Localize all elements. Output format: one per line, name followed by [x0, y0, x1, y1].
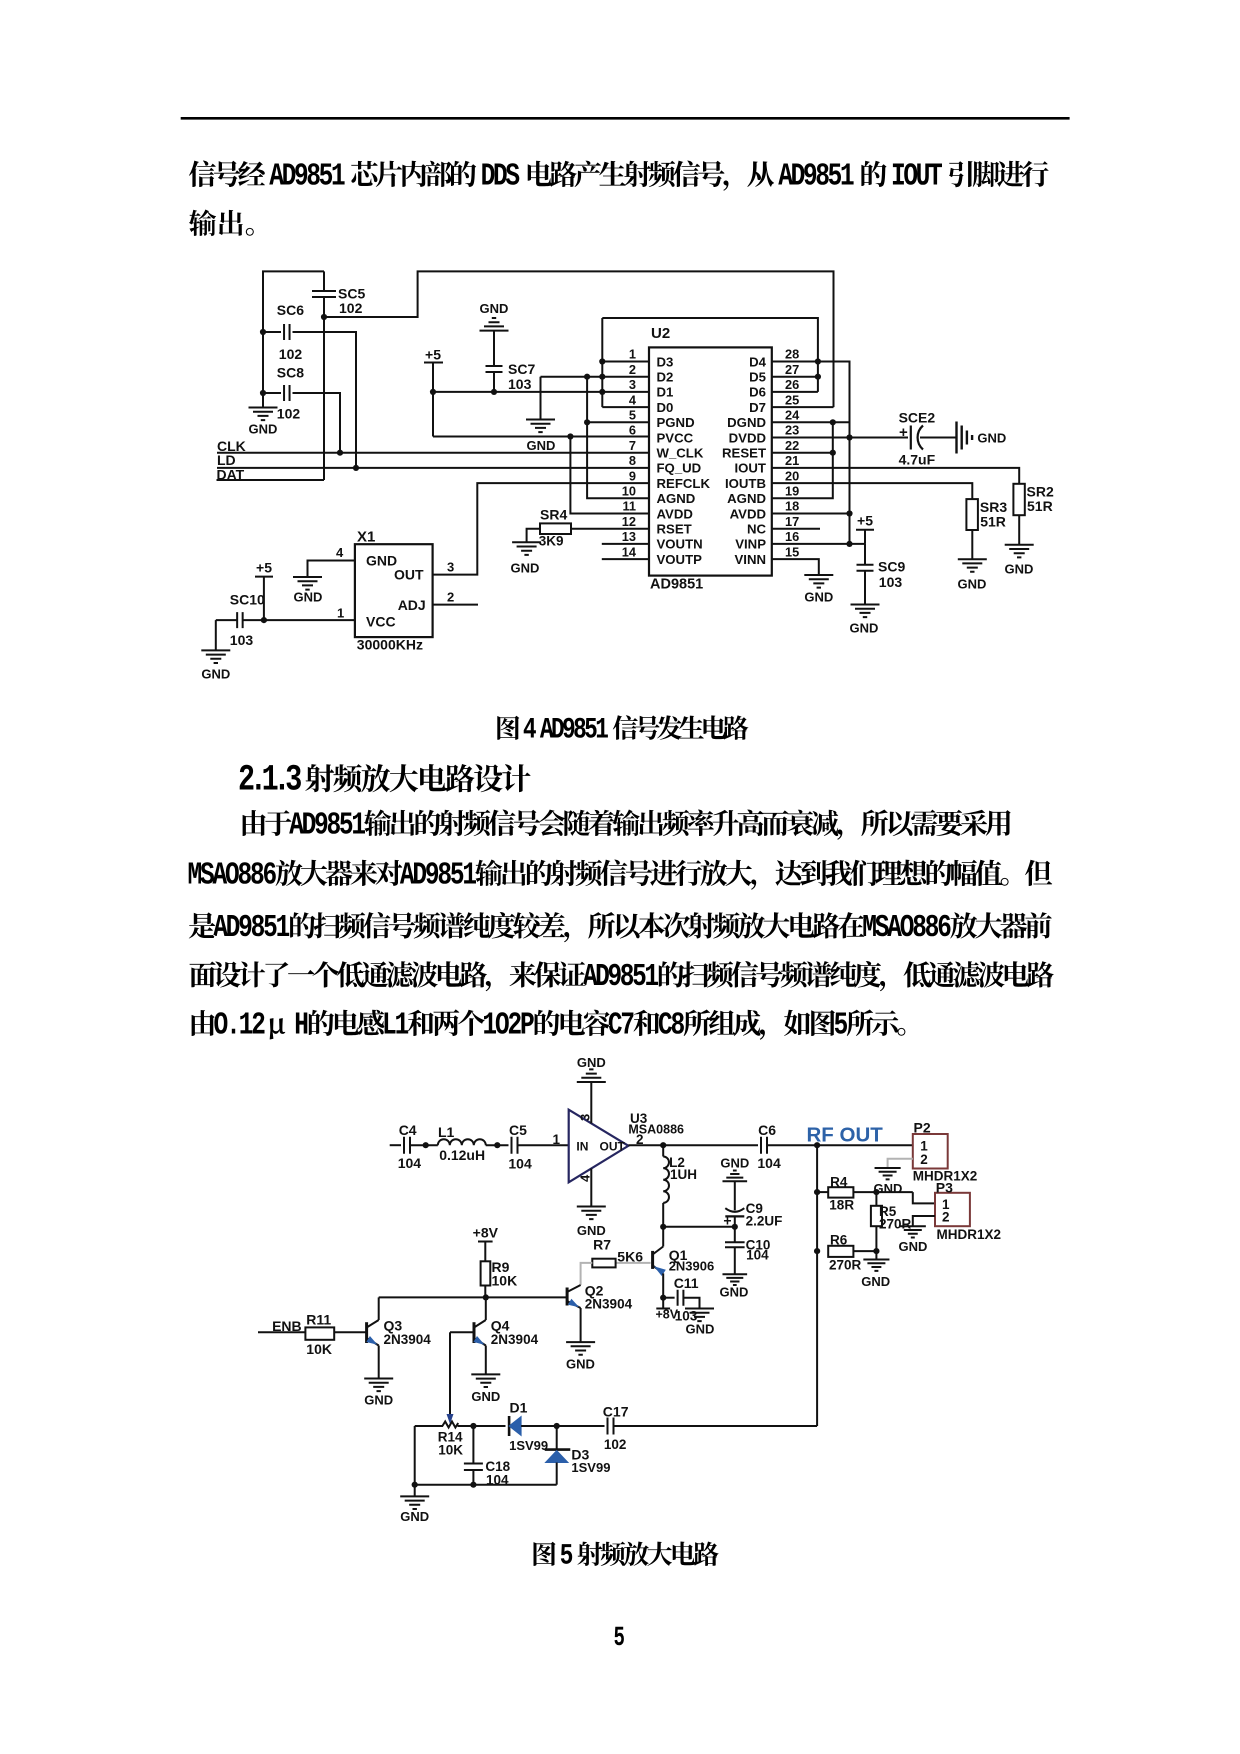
- svg-text:1: 1: [337, 606, 344, 621]
- svg-text:14: 14: [622, 544, 637, 559]
- svg-text:20: 20: [785, 468, 799, 483]
- capacitor SC9: [857, 544, 906, 605]
- wire: [913, 1192, 935, 1203]
- resistor SR3: [966, 499, 1007, 530]
- svg-text:W_CLK: W_CLK: [657, 446, 704, 461]
- svg-text:3: 3: [447, 560, 454, 575]
- svg-text:4: 4: [336, 545, 344, 560]
- svg-text:2N3906: 2N3906: [669, 1259, 715, 1274]
- wire: [772, 362, 853, 548]
- svg-text:7: 7: [629, 438, 636, 453]
- svg-text:GND: GND: [1005, 562, 1034, 577]
- wire: [390, 1144, 401, 1146]
- wire: [772, 543, 865, 545]
- ground: [850, 605, 880, 636]
- header rule: [181, 117, 1070, 120]
- connector P3: [935, 1179, 1001, 1242]
- power +8V: [656, 1298, 679, 1322]
- capacitor SC6: [260, 302, 359, 471]
- svg-text:270R: 270R: [879, 1217, 912, 1232]
- ground: [874, 1168, 903, 1196]
- svg-text:104: 104: [398, 1155, 422, 1171]
- svg-text:10K: 10K: [492, 1273, 518, 1289]
- svg-text:18: 18: [785, 499, 799, 514]
- svg-text:2N3904: 2N3904: [491, 1332, 539, 1347]
- svg-text:+: +: [723, 1213, 731, 1229]
- ground: [899, 1226, 928, 1254]
- wire: [971, 530, 973, 559]
- svg-text:2: 2: [447, 590, 454, 605]
- svg-text:12: 12: [622, 514, 636, 529]
- svg-text:102: 102: [279, 346, 303, 362]
- svg-text:PVCC: PVCC: [657, 430, 694, 445]
- svg-text:AGND: AGND: [727, 491, 766, 506]
- svg-text:2: 2: [942, 1209, 950, 1224]
- capacitor SC5: [312, 271, 365, 480]
- wire: [334, 1331, 366, 1333]
- transistor Q1: [653, 1247, 715, 1277]
- svg-text:GND: GND: [720, 1156, 749, 1171]
- capacitor C11: [663, 1275, 699, 1324]
- svg-text:AVDD: AVDD: [730, 506, 766, 521]
- wire: [772, 528, 820, 530]
- ground: [471, 1374, 500, 1404]
- svg-text:16: 16: [785, 529, 799, 544]
- svg-text:+8V: +8V: [473, 1225, 499, 1241]
- svg-text:X1: X1: [357, 529, 375, 546]
- svg-text:GND: GND: [366, 553, 397, 569]
- wire: [486, 1142, 509, 1148]
- wire: [415, 1425, 443, 1427]
- svg-text:13: 13: [622, 529, 636, 544]
- svg-text:1: 1: [552, 1132, 560, 1147]
- wire: [599, 318, 649, 407]
- ground: [685, 1309, 714, 1337]
- svg-text:2: 2: [920, 1152, 928, 1167]
- svg-text:GND: GND: [527, 438, 556, 453]
- node LD: [217, 452, 649, 468]
- svg-text:AGND: AGND: [657, 491, 696, 506]
- resistor R9: [481, 1259, 518, 1297]
- svg-text:102: 102: [604, 1437, 627, 1452]
- transistor Q2: [567, 1283, 632, 1312]
- ground: [958, 559, 987, 591]
- svg-text:GND: GND: [511, 561, 540, 576]
- node DAT: [217, 466, 325, 482]
- svg-text:GND: GND: [899, 1239, 928, 1254]
- svg-text:10K: 10K: [306, 1341, 332, 1357]
- svg-text:GND: GND: [804, 590, 833, 605]
- wire: [541, 374, 603, 420]
- svg-text:28: 28: [785, 347, 799, 362]
- wire: [410, 1142, 438, 1148]
- paragraph text line: [189, 210, 254, 237]
- svg-text:U2: U2: [651, 325, 670, 342]
- svg-text:OUT: OUT: [394, 567, 424, 583]
- capacitor C4: [398, 1122, 422, 1171]
- svg-text:D0: D0: [657, 400, 674, 415]
- svg-text:D4: D4: [749, 354, 767, 369]
- svg-text:SC9: SC9: [878, 559, 905, 575]
- ground: [249, 408, 278, 437]
- paragraph text line: [189, 161, 1049, 191]
- paragraph text line: [192, 1009, 906, 1039]
- capacitor SCE2: [899, 410, 956, 468]
- svg-text:C6: C6: [758, 1122, 776, 1138]
- svg-text:30000KHz: 30000KHz: [357, 637, 423, 653]
- svg-text:IOUT: IOUT: [734, 461, 766, 476]
- power +5: [856, 512, 874, 544]
- ground: [720, 1156, 749, 1182]
- wire: [433, 433, 649, 439]
- svg-text:GND: GND: [471, 1389, 500, 1404]
- IC U2 AD9851: [622, 325, 800, 593]
- wire: [584, 377, 649, 499]
- power +8V: [473, 1225, 499, 1262]
- svg-text:104: 104: [746, 1248, 769, 1263]
- svg-text:SR3: SR3: [980, 499, 1007, 515]
- capacitor SC10: [216, 592, 265, 651]
- svg-text:3: 3: [629, 377, 636, 392]
- svg-text:10K: 10K: [438, 1443, 463, 1458]
- svg-text:21: 21: [785, 453, 799, 468]
- svg-text:2N3904: 2N3904: [585, 1297, 633, 1312]
- wire: [660, 1203, 666, 1230]
- ground: [577, 1055, 606, 1082]
- svg-text:17: 17: [785, 514, 799, 529]
- svg-text:25: 25: [785, 392, 799, 407]
- page number: [615, 1627, 624, 1646]
- svg-text:1UH: 1UH: [670, 1167, 697, 1182]
- wire: [580, 1308, 582, 1342]
- ground: [511, 542, 542, 575]
- potentiometer R14: [438, 1414, 463, 1458]
- svg-text:SC10: SC10: [230, 592, 265, 608]
- svg-text:D5: D5: [749, 370, 766, 385]
- svg-text:AD9851: AD9851: [650, 577, 703, 593]
- svg-text:D3: D3: [657, 354, 674, 369]
- wire: [875, 1251, 877, 1259]
- svg-text:GND: GND: [400, 1509, 429, 1524]
- svg-text:GND: GND: [686, 1322, 715, 1337]
- inductor L1: [438, 1124, 486, 1163]
- svg-text:GND: GND: [364, 1393, 393, 1408]
- wire: [814, 1145, 820, 1426]
- svg-text:SC7: SC7: [508, 361, 535, 377]
- svg-text:19: 19: [785, 484, 799, 499]
- svg-text:27: 27: [785, 362, 799, 377]
- svg-text:+5: +5: [857, 512, 873, 528]
- capacitor SC8: [260, 365, 343, 456]
- ground: [400, 1485, 429, 1524]
- svg-text:DGND: DGND: [727, 415, 766, 430]
- wire: [570, 437, 649, 514]
- svg-text:270R: 270R: [829, 1258, 862, 1273]
- capacitor C10: [725, 1227, 770, 1275]
- svg-text:D2: D2: [657, 370, 674, 385]
- wire: [602, 318, 821, 392]
- svg-text:IOUTB: IOUTB: [725, 476, 766, 491]
- svg-text:VOUTN: VOUTN: [657, 537, 703, 552]
- svg-text:4.7uF: 4.7uF: [899, 452, 936, 468]
- capacitor C18: [464, 1426, 511, 1488]
- wire: [447, 560, 454, 575]
- svg-text:4: 4: [629, 392, 637, 407]
- svg-text:GND: GND: [861, 1274, 890, 1289]
- svg-text:+5: +5: [256, 560, 272, 576]
- ground: [861, 1260, 890, 1290]
- svg-text:104: 104: [757, 1155, 781, 1171]
- svg-text:1: 1: [629, 347, 636, 362]
- power +5: [255, 560, 273, 621]
- svg-text:GND: GND: [566, 1357, 595, 1372]
- svg-text:24: 24: [785, 408, 800, 423]
- resistor R11: [305, 1312, 334, 1358]
- svg-text:OUT: OUT: [600, 1139, 626, 1153]
- svg-text:10: 10: [622, 484, 636, 499]
- inductor L2: [663, 1145, 697, 1203]
- wire: [450, 1331, 474, 1333]
- node CLK: [217, 438, 649, 454]
- svg-text:GND: GND: [719, 1285, 748, 1300]
- wire: [772, 437, 908, 439]
- node RF OUT: [807, 1124, 884, 1147]
- svg-text:R4: R4: [830, 1175, 848, 1190]
- svg-text:103: 103: [879, 574, 903, 590]
- ground: [957, 422, 1007, 454]
- resistor R6: [828, 1233, 876, 1273]
- resistor R5: [871, 1192, 912, 1254]
- wire: [614, 1425, 818, 1427]
- svg-text:D1: D1: [510, 1400, 528, 1416]
- svg-text:REFCLK: REFCLK: [657, 476, 711, 491]
- resistor SR2: [1013, 484, 1054, 516]
- svg-text:SR4: SR4: [540, 506, 567, 522]
- svg-text:51R: 51R: [980, 514, 1006, 530]
- transistor Q4: [473, 1318, 538, 1348]
- wire: [660, 1273, 666, 1300]
- wire: [628, 1142, 758, 1148]
- connector P2: [913, 1120, 978, 1184]
- svg-text:103: 103: [508, 376, 532, 392]
- svg-text:AVDD: AVDD: [657, 506, 693, 521]
- svg-text:5K6: 5K6: [617, 1249, 643, 1265]
- figure 5 caption: [534, 1542, 719, 1567]
- svg-text:C11: C11: [674, 1275, 699, 1291]
- resistor R7: [581, 1237, 651, 1286]
- wire: [433, 483, 649, 574]
- amplifier U3: [569, 1110, 684, 1183]
- zener D3: [545, 1426, 611, 1485]
- svg-text:8: 8: [629, 453, 636, 468]
- svg-text:+: +: [899, 424, 908, 441]
- wire: [308, 545, 355, 577]
- paragraph text line: [190, 961, 1054, 991]
- wire: [518, 1132, 569, 1147]
- svg-text:51R: 51R: [1027, 498, 1053, 514]
- svg-text:R7: R7: [593, 1237, 611, 1253]
- wire: [485, 1297, 487, 1320]
- svg-text:1SV99: 1SV99: [509, 1438, 548, 1453]
- wire: [378, 1297, 380, 1320]
- svg-text:VCC: VCC: [366, 614, 396, 630]
- ground: [566, 1342, 595, 1371]
- svg-text:22: 22: [785, 438, 799, 453]
- wire: [433, 590, 478, 605]
- svg-text:GND: GND: [480, 301, 509, 316]
- svg-text:D6: D6: [749, 385, 766, 400]
- wire: [772, 483, 973, 499]
- wire: [913, 1216, 935, 1226]
- ground: [364, 1379, 393, 1408]
- ground: [577, 1207, 606, 1239]
- resistor SR4: [527, 506, 649, 548]
- svg-text:9: 9: [629, 468, 636, 483]
- node ENB: [258, 1318, 305, 1334]
- svg-text:3: 3: [578, 1114, 593, 1121]
- wire: [772, 468, 1019, 484]
- svg-text:R11: R11: [306, 1312, 331, 1328]
- wire: [663, 1224, 738, 1230]
- svg-text:GND: GND: [850, 621, 879, 636]
- svg-text:RESET: RESET: [722, 446, 766, 461]
- paragraph text line: [189, 860, 1052, 890]
- svg-text:C5: C5: [509, 1122, 527, 1138]
- wire: [243, 606, 355, 624]
- wire: [324, 271, 834, 407]
- svg-text:R6: R6: [830, 1233, 848, 1248]
- transistor Q3: [366, 1318, 431, 1348]
- capacitor C5: [508, 1122, 532, 1172]
- svg-text:23: 23: [785, 423, 799, 438]
- svg-text:DVDD: DVDD: [729, 430, 766, 445]
- section heading: [240, 764, 531, 792]
- svg-text:D1: D1: [657, 385, 674, 400]
- wire: [430, 389, 649, 395]
- svg-text:C17: C17: [603, 1404, 629, 1420]
- svg-text:GND: GND: [977, 431, 1006, 446]
- wire: [662, 1227, 664, 1247]
- ground: [480, 301, 509, 331]
- ground: [719, 1274, 748, 1299]
- wire: [485, 1346, 487, 1375]
- wire: [263, 271, 324, 407]
- ground: [293, 577, 322, 605]
- svg-text:102: 102: [277, 406, 301, 422]
- svg-text:4: 4: [578, 1174, 593, 1182]
- ground: [526, 420, 555, 454]
- wire: [1018, 515, 1020, 545]
- svg-text:VINP: VINP: [735, 537, 766, 552]
- wire: [590, 1082, 592, 1123]
- ground: [201, 650, 230, 681]
- svg-text:6: 6: [629, 423, 636, 438]
- wire: [378, 1346, 380, 1379]
- svg-text:VINN: VINN: [734, 552, 766, 567]
- ground: [804, 575, 833, 605]
- wire: [521, 1423, 604, 1429]
- svg-text:104: 104: [508, 1156, 532, 1172]
- power +5: [424, 347, 443, 437]
- svg-text:GND: GND: [294, 590, 323, 605]
- wire: [458, 1423, 506, 1429]
- svg-text:11: 11: [622, 499, 636, 514]
- svg-text:1SV99: 1SV99: [571, 1460, 610, 1475]
- wire: [449, 1332, 451, 1414]
- wire: [888, 1159, 913, 1168]
- paragraph text line: [189, 912, 1052, 942]
- svg-text:2N3904: 2N3904: [384, 1332, 432, 1347]
- svg-text:5: 5: [629, 408, 636, 423]
- svg-text:P3: P3: [936, 1179, 953, 1195]
- wire: [412, 1426, 557, 1488]
- svg-text:MHDR1X2: MHDR1X2: [937, 1227, 1002, 1242]
- svg-text:103: 103: [230, 632, 254, 648]
- svg-text:SC8: SC8: [277, 365, 304, 381]
- resistor R4: [817, 1175, 913, 1213]
- svg-text:GND: GND: [958, 577, 987, 592]
- wire: [590, 1169, 592, 1207]
- svg-text:GND: GND: [201, 667, 230, 682]
- svg-text:2: 2: [629, 362, 636, 377]
- svg-text:ADJ: ADJ: [398, 597, 426, 613]
- oscillator X1: [355, 529, 433, 653]
- svg-text:GND: GND: [577, 1055, 606, 1070]
- capacitor SC7: [486, 331, 536, 392]
- svg-text:P2: P2: [914, 1120, 931, 1136]
- svg-text:D7: D7: [749, 400, 766, 415]
- svg-text:SC6: SC6: [277, 302, 304, 318]
- ground: [1005, 545, 1034, 577]
- svg-text:+5: +5: [425, 347, 441, 363]
- svg-text:0.12uH: 0.12uH: [439, 1147, 485, 1163]
- svg-text:C4: C4: [399, 1122, 417, 1138]
- svg-text:FQ_UD: FQ_UD: [657, 461, 702, 476]
- svg-text:3K9: 3K9: [539, 534, 564, 549]
- svg-text:NC: NC: [747, 522, 767, 537]
- diode D1: [509, 1400, 548, 1453]
- capacitor C17: [603, 1404, 629, 1453]
- capacitor C9: [723, 1181, 782, 1228]
- svg-text:L1: L1: [438, 1124, 455, 1140]
- svg-text:102: 102: [339, 300, 363, 316]
- svg-text:VOUTP: VOUTP: [657, 552, 703, 567]
- svg-text:IN: IN: [576, 1139, 588, 1153]
- wire: [767, 1142, 913, 1148]
- capacitor C6: [757, 1122, 781, 1171]
- paragraph text line: [243, 810, 1011, 840]
- svg-text:RSET: RSET: [657, 522, 692, 537]
- svg-text:15: 15: [785, 544, 799, 559]
- figure 4 caption: [497, 715, 748, 740]
- wire: [602, 544, 649, 559]
- svg-text:RF OUT: RF OUT: [807, 1124, 884, 1147]
- wire: [772, 559, 819, 575]
- svg-text:PGND: PGND: [657, 415, 695, 430]
- svg-text:2.2UF: 2.2UF: [746, 1214, 783, 1229]
- svg-text:GND: GND: [249, 422, 278, 437]
- svg-text:18R: 18R: [829, 1198, 854, 1213]
- wire: [772, 422, 836, 498]
- wire: [379, 1294, 567, 1300]
- svg-text:26: 26: [785, 377, 799, 392]
